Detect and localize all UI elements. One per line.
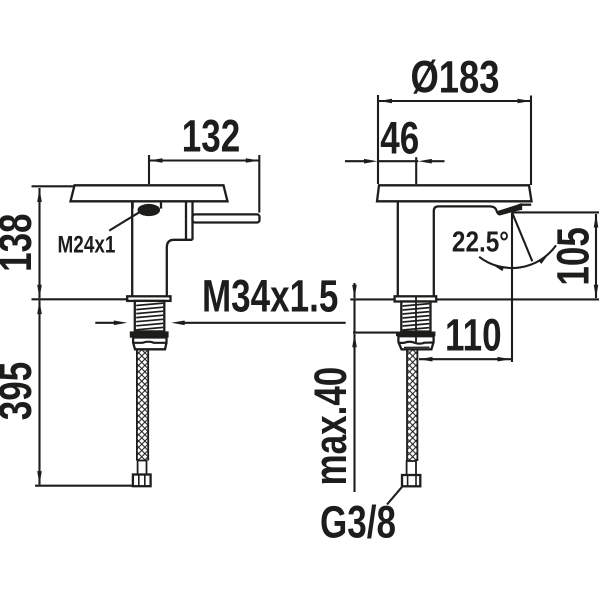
dimension Ø183 (disc diameter, side view) <box>378 52 531 185</box>
svg-text:22.5°: 22.5° <box>452 225 509 257</box>
mounting nut (front view) <box>130 331 169 337</box>
body column (front view) <box>132 201 192 296</box>
dimension 105 (handle height, side view) <box>512 212 599 298</box>
flexible hose (side view) <box>407 350 417 462</box>
spout disc plate (side view) <box>377 185 532 201</box>
svg-text:G3/8: G3/8 <box>320 496 396 548</box>
hose end fitting (side view) <box>407 461 416 475</box>
svg-text:105: 105 <box>547 227 599 285</box>
svg-text:M34x1.5: M34x1.5 <box>202 270 338 322</box>
label M24x1 with leader (aerator) <box>58 209 145 258</box>
hose end nut (side view) <box>402 475 420 486</box>
dimension M34x1.5 (shank thread) <box>95 270 345 325</box>
aerator outlet (black ellipse) <box>138 204 161 216</box>
handle pivot extension line (side view) <box>511 213 513 363</box>
dimension 46 (spout axis offset, side view) <box>345 112 445 184</box>
handle lever (front view) <box>193 214 260 222</box>
shank collar (front view) <box>133 338 166 350</box>
threaded shank (front view) <box>135 301 165 332</box>
dimension 132 (handle reach, front view) <box>149 110 259 213</box>
svg-text:Ø183: Ø183 <box>410 52 499 103</box>
body block (side view) <box>434 206 500 296</box>
base flange (side view) <box>395 296 437 301</box>
spout axis center line (side view) <box>415 297 417 343</box>
svg-text:M24x1: M24x1 <box>58 230 116 258</box>
hose end fitting (front view) <box>138 461 147 475</box>
label G3/8 with leader (hose connection) <box>320 486 403 547</box>
mounting surface line (front view) <box>32 298 128 300</box>
dimension 110 (side view) <box>419 309 511 361</box>
dimension 138 (spout height, front view) <box>0 186 75 298</box>
aerator housing (front view) <box>133 201 161 208</box>
base flange (front view) <box>127 296 170 301</box>
mounting surface line (side view) <box>350 298 599 300</box>
svg-text:46: 46 <box>380 112 419 164</box>
spout disc plate (front view) <box>71 185 228 201</box>
handle lever (side view) <box>498 203 531 215</box>
svg-text:138: 138 <box>0 213 41 271</box>
flexible hose (front view) <box>137 350 148 461</box>
threaded shank (side view) <box>401 297 430 332</box>
svg-text:132: 132 <box>182 110 240 162</box>
shank collar (side view) <box>398 336 433 349</box>
cartridge housing strip (front view) <box>186 201 193 240</box>
hose end nut (front view) <box>133 475 151 487</box>
svg-text:110: 110 <box>445 309 502 361</box>
dimension 395 (overall hose length, front view) <box>0 301 133 486</box>
svg-text:395: 395 <box>0 362 41 420</box>
svg-text:max.40: max.40 <box>304 367 356 486</box>
mounting nut (side view) <box>396 332 435 337</box>
angle dimension 22.5° (handle tilt) <box>452 214 556 272</box>
dimension max.40 (max deck thickness) <box>304 283 396 492</box>
body front edge (side view) <box>397 201 399 296</box>
